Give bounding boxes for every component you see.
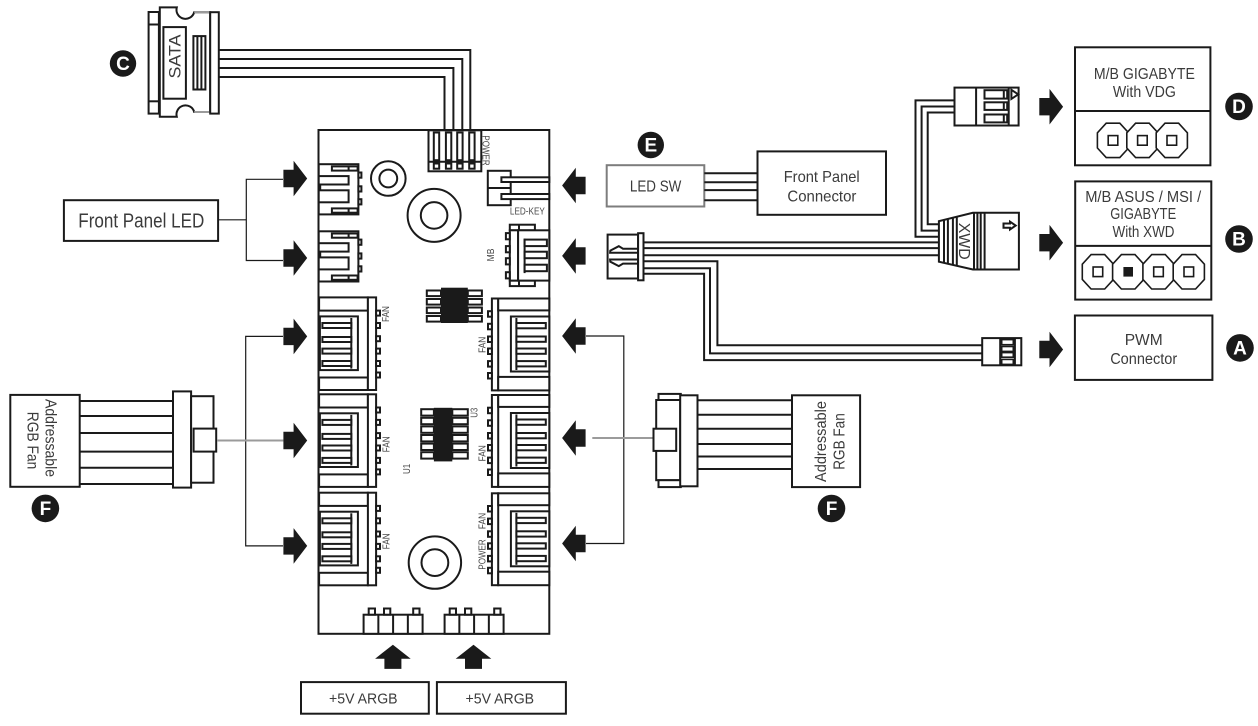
bottom +5V ARGB header 2 <box>445 609 504 634</box>
svg-text:D: D <box>1232 97 1246 118</box>
FAN connector right row2 <box>488 395 549 487</box>
POWER connector on hub <box>429 130 482 171</box>
gray link left fan <box>218 440 284 442</box>
mounting hole top large <box>408 189 461 242</box>
label A <box>1226 334 1254 362</box>
RGB fan connector right <box>654 394 698 487</box>
front panel LED bracket <box>246 179 283 260</box>
arrow to A <box>1039 332 1063 368</box>
VDG connector <box>955 88 1019 126</box>
svg-text:Connector: Connector <box>787 189 857 206</box>
svg-text:FAN: FAN <box>381 436 393 452</box>
wire box to bracket <box>218 219 246 221</box>
PWM Connector box A <box>1075 316 1213 380</box>
svg-text:With VDG: With VDG <box>1113 84 1176 101</box>
arrow to D <box>1039 89 1063 125</box>
FAN connector left row1 <box>319 297 380 390</box>
svg-text:FAN: FAN <box>477 513 489 529</box>
label D <box>1225 93 1253 121</box>
wire vdg 2 <box>922 107 955 231</box>
label E <box>638 132 664 158</box>
wire sata-2 <box>219 59 462 131</box>
mounting hole bottom <box>409 536 461 588</box>
svg-text:POWER: POWER <box>477 539 489 570</box>
svg-text:Connector: Connector <box>1110 351 1177 368</box>
front panel LED socket 2 on hub <box>318 231 361 281</box>
arrow to fan right1 <box>562 318 586 354</box>
label C <box>110 50 136 76</box>
left fan bracket <box>246 336 283 546</box>
XWD connector <box>939 213 1019 270</box>
M/B ASUS MSI GIGABYTE With XWD box B <box>1075 181 1211 299</box>
arrow to fan right2 <box>562 420 586 456</box>
SATA power connector C <box>149 7 219 116</box>
svg-text:U1: U1 <box>401 464 413 474</box>
svg-text:MB: MB <box>485 249 497 262</box>
FAN connector left row2 <box>319 394 380 487</box>
gray link right fan <box>592 437 653 439</box>
arrow to LED-KEY <box>562 168 586 204</box>
arrow to MB <box>562 238 586 274</box>
right fan bracket <box>586 336 624 544</box>
arrow to fan left3 <box>283 528 307 564</box>
wires RGB fan right <box>698 400 793 469</box>
LED SW box <box>607 165 705 206</box>
mounting hole top small <box>371 161 406 196</box>
arrow to B <box>1039 225 1063 261</box>
svg-text:FAN: FAN <box>477 337 489 353</box>
svg-text:F: F <box>40 499 52 520</box>
svg-text:A: A <box>1233 338 1247 359</box>
wire sata-4 <box>219 77 445 131</box>
arrow to fan left1 <box>283 319 307 355</box>
wire latch-pwm 2 <box>644 268 983 353</box>
wire sata-1 <box>219 50 470 131</box>
hub PCB board <box>319 130 550 634</box>
svg-text:Front Panel: Front Panel <box>784 169 860 186</box>
wire vdg 1 <box>916 100 955 236</box>
FAN connector left row3 <box>319 493 380 586</box>
front panel LED socket 1 on hub <box>318 164 361 214</box>
svg-text:POWER: POWER <box>480 135 492 166</box>
label B <box>1225 225 1253 253</box>
svg-text:PWM: PWM <box>1125 332 1163 349</box>
wire latch-xwd 1 <box>644 241 939 243</box>
svg-text:With XWD: With XWD <box>1113 224 1175 241</box>
wire latch-pwm 1 <box>644 261 983 345</box>
svg-text:FAN: FAN <box>381 533 393 549</box>
wire latch-pwm 3 <box>644 274 983 360</box>
svg-text:U3: U3 <box>469 408 481 418</box>
PWM connector <box>982 338 1021 365</box>
LED-KEY connector <box>488 171 550 205</box>
+5V ARGB box 2 <box>437 682 566 714</box>
svg-text:B: B <box>1232 230 1246 251</box>
svg-text:GIGABYTE: GIGABYTE <box>1110 206 1176 223</box>
svg-text:Addressable: Addressable <box>42 399 59 477</box>
svg-text:C: C <box>116 54 130 75</box>
svg-text:LED SW: LED SW <box>630 179 682 196</box>
label F right <box>818 495 846 523</box>
up arrow 2 <box>456 645 492 669</box>
FAN connector right row1 <box>488 299 549 391</box>
M/B GIGABYTE With VDG box D <box>1075 47 1210 165</box>
arrow to LED socket 2 <box>283 240 307 276</box>
svg-text:E: E <box>644 136 657 157</box>
wires LED SW to front panel connector <box>704 173 757 200</box>
svg-text:Front Panel LED: Front Panel LED <box>78 210 204 233</box>
svg-text:M/B GIGABYTE: M/B GIGABYTE <box>1094 66 1195 83</box>
Addressable RGB Fan box left <box>10 395 79 487</box>
Front Panel LED box <box>64 200 218 241</box>
svg-text:RGB Fan: RGB Fan <box>24 412 41 470</box>
arrow to fan right3 <box>562 526 586 562</box>
Addressable RGB Fan box right <box>792 395 860 487</box>
svg-text:RGB Fan: RGB Fan <box>831 413 848 470</box>
wire sata-3 <box>219 68 454 131</box>
wire latch-xwd 2 <box>644 247 939 249</box>
wire latch-xwd 3 <box>644 254 939 256</box>
RGB fan connector left <box>173 391 216 487</box>
MB connector <box>506 225 549 286</box>
svg-text:+5V ARGB: +5V ARGB <box>466 690 535 707</box>
svg-text:F: F <box>826 499 838 520</box>
svg-text:XWD: XWD <box>955 223 972 260</box>
bottom +5V ARGB header 1 <box>364 609 423 634</box>
svg-text:+5V ARGB: +5V ARGB <box>329 690 398 707</box>
arrow to fan left2 <box>283 423 307 459</box>
IC chip U1 (bottom) <box>421 408 468 462</box>
latch connector to MB <box>608 233 644 280</box>
svg-text:FAN: FAN <box>380 306 392 322</box>
svg-text:SATA: SATA <box>165 34 184 79</box>
wire vdg 3 <box>928 113 955 225</box>
svg-text:LED-KEY: LED-KEY <box>510 206 545 218</box>
arrow to LED socket 1 <box>283 161 307 197</box>
wires RGB fan left <box>80 401 173 484</box>
label F left <box>32 495 60 523</box>
up arrow 1 <box>375 645 411 669</box>
FAN connector right row3 <box>488 493 549 585</box>
+5V ARGB box 1 <box>301 682 429 714</box>
svg-text:Addressable: Addressable <box>813 401 830 482</box>
svg-text:M/B ASUS / MSI /: M/B ASUS / MSI / <box>1085 189 1202 206</box>
IC chip U3 (top) <box>427 288 482 323</box>
Front Panel Connector box <box>758 151 887 214</box>
svg-text:FAN: FAN <box>477 445 489 461</box>
